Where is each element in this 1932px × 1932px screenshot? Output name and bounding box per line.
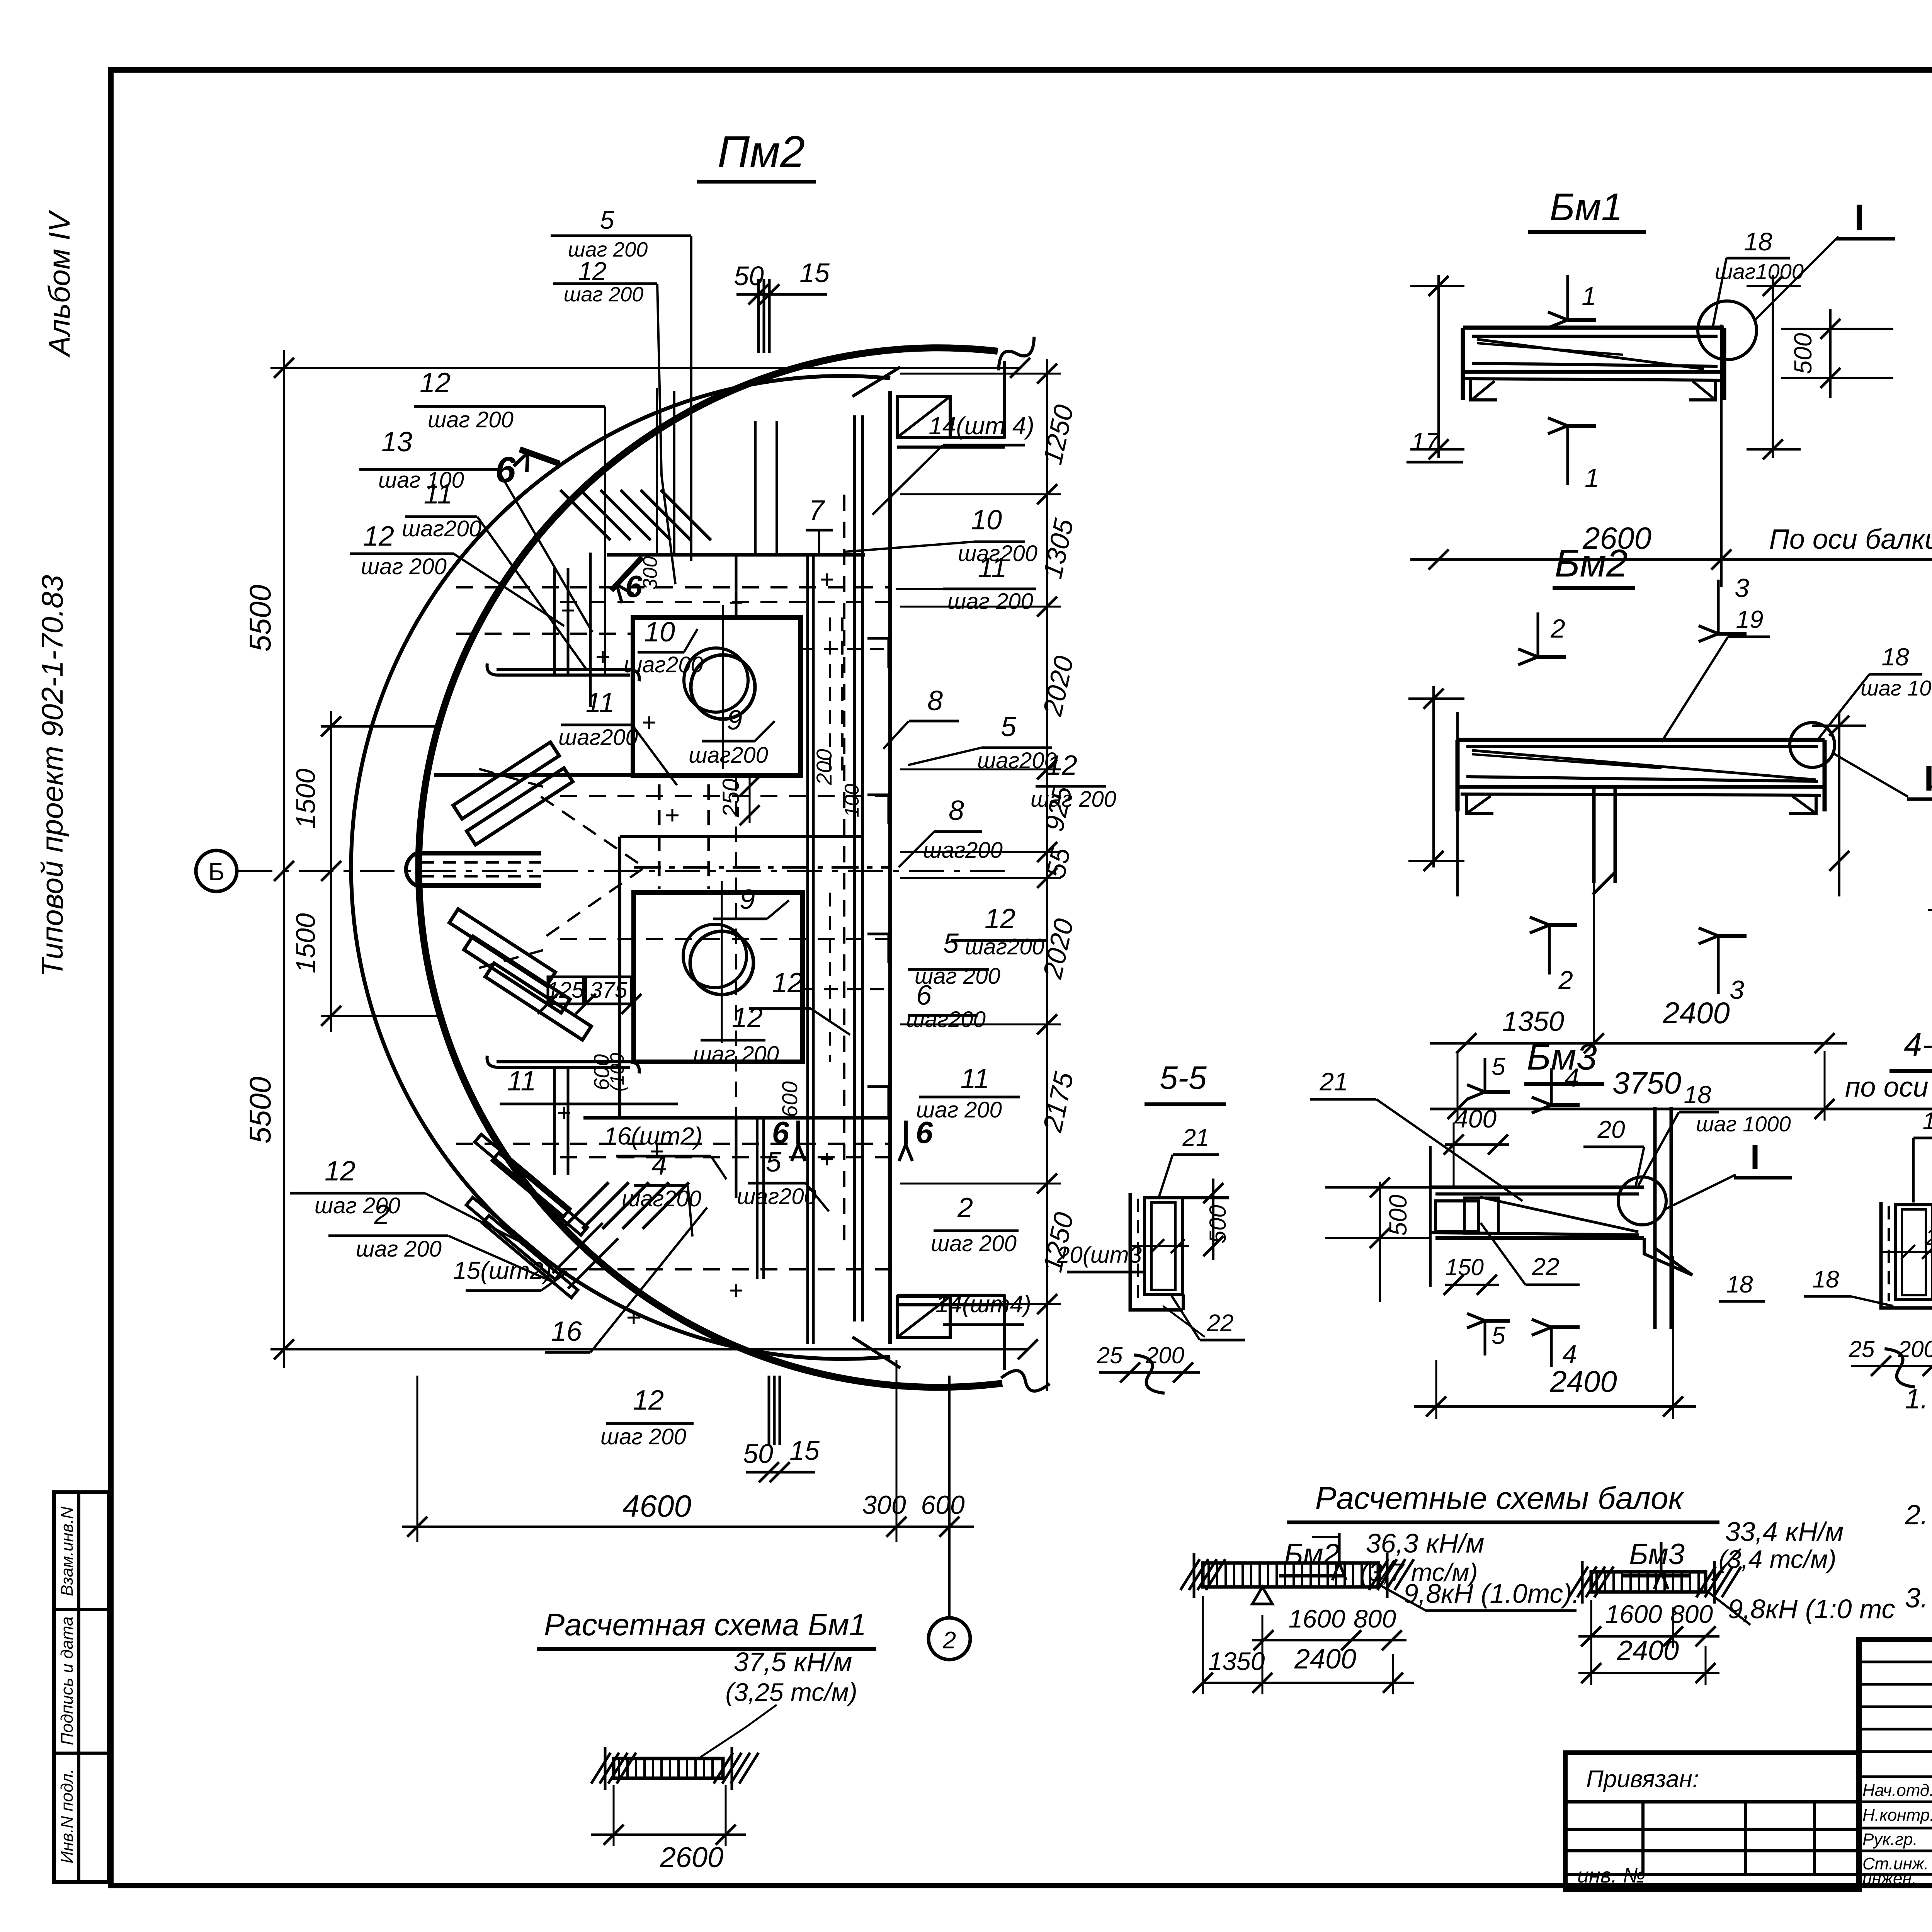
svg-text:4: 4 (651, 1150, 667, 1181)
svg-text:1350: 1350 (1208, 1647, 1265, 1675)
svg-text:1600: 1600 (1605, 1600, 1662, 1628)
left stamp table (54, 1492, 109, 1882)
svg-text:14(шт4): 14(шт4) (935, 1291, 1031, 1318)
svg-text:шаг200: шаг200 (965, 934, 1044, 959)
hatch opening square 2 (634, 893, 803, 1062)
svg-text:10: 10 (971, 505, 1002, 536)
svg-text:12: 12 (985, 903, 1015, 934)
left dim chain 5500/5500 (283, 350, 285, 1368)
svg-text:5500: 5500 (243, 1077, 277, 1144)
dims 125 375 (538, 977, 641, 1014)
svg-text:шаг 1000: шаг 1000 (1696, 1112, 1791, 1136)
dashed distribution lines mid (634, 866, 889, 869)
section mark 6 mid-left with arrow (611, 556, 662, 604)
svg-text:600: 600 (777, 1081, 802, 1117)
angled sleeve bars upper (453, 742, 559, 819)
section mark 6 top-left (495, 449, 560, 490)
svg-text:Б: Б (208, 858, 224, 886)
scheme Бм1 dim 2600 (591, 1785, 746, 1873)
callout label 12 шаг 200 (1031, 750, 1116, 812)
callout label 5 шаг 200 (551, 206, 691, 561)
svg-text:Привязан:: Привязан: (1586, 1766, 1699, 1793)
title block outer (1859, 1639, 1932, 1886)
hole circle 1 (691, 655, 755, 719)
callout label 11 шаг200 (558, 687, 677, 785)
callout label 12 шаг 200 (290, 1156, 534, 1249)
callout label 5 шаг200 (737, 1147, 829, 1211)
scheme Бм2 beam (1180, 1533, 1414, 1604)
hooked bar upper (497, 668, 630, 671)
beam Бм1 dim 500 (1781, 309, 1893, 398)
svg-text:800: 800 (1670, 1600, 1713, 1628)
svg-text:2: 2 (942, 1627, 956, 1654)
svg-text:5: 5 (1492, 1053, 1505, 1080)
svg-text:1: 1 (1585, 463, 1599, 493)
beam Бм3 dim 400 (1444, 1104, 1509, 1188)
beam Бм2 body (1408, 686, 1866, 896)
svg-text:Бм1: Бм1 (1549, 185, 1622, 229)
callout label 50 15 bottom (743, 1435, 820, 1482)
hatched wedge upper left (560, 490, 611, 540)
svg-text:Бм2: Бм2 (1554, 542, 1628, 585)
slab step edge lower (583, 1116, 889, 1120)
svg-text:375: 375 (590, 978, 628, 1003)
svg-text:14(шт 4): 14(шт 4) (929, 412, 1034, 440)
callout label 9 шаг200 (689, 705, 775, 768)
callout label 15(шт2) (453, 1257, 567, 1291)
svg-text:инв. №: инв. № (1577, 1864, 1645, 1887)
svg-text:500: 500 (1384, 1194, 1412, 1236)
svg-text:Подпись и дата: Подпись и дата (58, 1617, 77, 1745)
callout label 16 (545, 1207, 707, 1352)
section 5-5 dims 25 200 (1097, 1342, 1200, 1398)
svg-text:800: 800 (1354, 1604, 1396, 1633)
svg-text:5: 5 (1001, 711, 1017, 742)
callout label 50 15 top (734, 258, 830, 304)
section marks 6 bottom (772, 1115, 933, 1161)
callout label 12 шаг200 (951, 903, 1046, 959)
svg-text:1350: 1350 (1502, 1006, 1564, 1037)
hidden beam edge under plate (843, 495, 845, 1240)
svg-text:I: I (1924, 759, 1932, 798)
callout label 4 шаг200 (622, 1150, 701, 1236)
arc break mark top (992, 337, 1041, 371)
svg-text:300: 300 (639, 556, 662, 590)
callout label 11 шаг 200 (896, 553, 1036, 614)
svg-text:19: 19 (1736, 605, 1763, 633)
svg-text:150: 150 (1445, 1254, 1484, 1280)
svg-text:25: 25 (1849, 1336, 1875, 1362)
svg-text:33,4 кН/м: 33,4 кН/м (1725, 1517, 1844, 1547)
section 4-4 dims 25 200 (1849, 1336, 1932, 1392)
svg-text:9: 9 (727, 705, 742, 736)
svg-text:15: 15 (789, 1435, 820, 1466)
callout label 10 шаг200 (624, 617, 703, 677)
svg-text:12: 12 (633, 1385, 664, 1416)
svg-text:300: 300 (862, 1490, 906, 1520)
plan outer wall arc (419, 348, 1002, 1387)
hooked bar lower (497, 1060, 630, 1063)
beam Бм1 detail circle I (1698, 301, 1757, 360)
svg-text:12: 12 (420, 367, 451, 398)
svg-text:2400: 2400 (1662, 996, 1730, 1030)
svg-text:18: 18 (1726, 1271, 1753, 1298)
svg-text:шаг 200: шаг 200 (315, 1193, 400, 1218)
wedge dashed outline (541, 797, 645, 940)
callout label 5 шаг200 (908, 711, 1057, 773)
svg-text:10: 10 (644, 617, 675, 648)
slab edge diagonal top (852, 367, 900, 396)
svg-text:(100: (100 (606, 1053, 628, 1092)
svg-text:по оси балки: по оси балки (1845, 1072, 1932, 1103)
beam Бм2 section mark 3 bottom (1699, 928, 1747, 1005)
beam end plate 14 bottom (897, 1296, 950, 1337)
bottom dim chain 4600-300-600 (402, 1526, 974, 1528)
slab step edge upper (434, 773, 634, 777)
svg-text:Инв.N подл.: Инв.N подл. (58, 1769, 77, 1864)
svg-text:6: 6 (495, 449, 516, 490)
callout label 11 шаг 200 (916, 1063, 1020, 1122)
pier between openings dashed (658, 784, 661, 889)
rebar verticals lower band (553, 1066, 556, 1175)
svg-text:6: 6 (916, 1115, 933, 1150)
svg-text:200: 200 (812, 749, 836, 785)
svg-text:шаг 200: шаг 200 (428, 407, 514, 432)
interior slab band top edge (607, 553, 865, 557)
slab edge diagonal bottom (852, 1337, 900, 1368)
svg-text:I: I (1750, 1138, 1760, 1177)
svg-text:22: 22 (1531, 1253, 1559, 1281)
svg-text:5: 5 (766, 1147, 782, 1178)
callout label 14(шт 4) (872, 412, 1034, 515)
svg-text:1600: 1600 (1289, 1604, 1345, 1633)
svg-text:2. Арматуру плиты и ст: 2. Арматуру плиты и стержни поз 2 сварит… (1905, 1500, 1932, 1531)
svg-text:2600: 2600 (660, 1841, 724, 1873)
svg-text:Альбом IV: Альбом IV (42, 209, 76, 357)
svg-text:шаг200: шаг200 (689, 743, 768, 768)
svg-text:17: 17 (1411, 427, 1440, 456)
svg-text:50: 50 (734, 261, 764, 291)
svg-text:5: 5 (1492, 1321, 1505, 1349)
bottom wall band near opening (897, 1294, 1005, 1297)
section 4-4 drawing (1881, 1182, 1932, 1308)
svg-text:9,8кН (1:0 тс: 9,8кН (1:0 тс (1728, 1594, 1895, 1624)
svg-text:6: 6 (916, 980, 932, 1011)
svg-text:18: 18 (1881, 643, 1909, 671)
dashed distribution lines upper (456, 586, 889, 588)
beam Бм2 dim 500 (1928, 767, 1932, 935)
svg-text:500: 500 (1205, 1205, 1231, 1243)
beam Бм2 section mark 2 top (1518, 612, 1566, 665)
axis Б circle (196, 850, 237, 891)
svg-text:12: 12 (325, 1156, 355, 1187)
svg-text:16(шт2): 16(шт2) (604, 1122, 702, 1150)
svg-text:Бм3: Бм3 (1629, 1538, 1685, 1571)
svg-text:2400: 2400 (1294, 1644, 1356, 1675)
svg-text:18: 18 (1744, 227, 1772, 256)
beam Бм2 section mark 3 top (1699, 573, 1749, 642)
callout label 12 шаг 200 (414, 367, 605, 674)
svg-text:шаг200: шаг200 (977, 748, 1057, 773)
svg-text:шаг 200: шаг 200 (947, 589, 1033, 614)
scheme Бм1 beam (591, 1705, 777, 1790)
callout label 9 (713, 884, 789, 919)
clip marks along plate edge (867, 638, 889, 668)
top wall band near opening (897, 436, 1005, 439)
svg-text:21: 21 (1182, 1124, 1209, 1151)
svg-text:4-4: 4-4 (1904, 1026, 1932, 1063)
svg-text:20(шт3): 20(шт3) (1925, 1225, 1932, 1250)
beam Бм2 section mark 2 bottom (1530, 917, 1577, 995)
svg-text:13: 13 (381, 427, 412, 457)
svg-text:3: 3 (1730, 975, 1744, 1005)
svg-text:3750: 3750 (1612, 1066, 1681, 1100)
beam Бм2 detail circle I (1790, 723, 1835, 767)
svg-text:37,5 кН/м: 37,5 кН/м (734, 1647, 852, 1677)
svg-text:11: 11 (424, 479, 453, 510)
svg-text:шаг 200: шаг 200 (600, 1424, 686, 1449)
scheme Бм3 beam (1569, 1542, 1741, 1604)
svg-text:Н.контр.: Н.контр. (1862, 1806, 1932, 1825)
beam Бм1 label 18 шаг1000 (1713, 227, 1804, 328)
svg-text:шаг200: шаг200 (737, 1184, 816, 1209)
svg-text:11: 11 (961, 1063, 990, 1094)
notes text (1905, 1384, 1932, 1645)
beam Бм3 section mark 5 bottom (1467, 1313, 1510, 1355)
scheme Бм2 dims (1193, 1596, 1414, 1694)
svg-text:3. Расчетная нагрузка н: 3. Расчетная нагрузка на плиту составляе… (1905, 1583, 1932, 1614)
svg-text:9: 9 (740, 884, 755, 915)
hatched wedge lower left (562, 1182, 609, 1229)
svg-text:12: 12 (578, 257, 606, 285)
privyazan table (1565, 1753, 1860, 1890)
svg-text:5500: 5500 (243, 585, 277, 652)
svg-text:шаг1000: шаг1000 (1715, 259, 1804, 284)
scheme Бм3 dims (1578, 1600, 1719, 1685)
svg-text:(3,4 тс/м): (3,4 тс/м) (1719, 1545, 1837, 1573)
axis Б line (238, 870, 1005, 872)
beam Бм1 section mark 1 top (1548, 275, 1596, 328)
section 5-5 drawing (1130, 1179, 1229, 1310)
dashed horizontals near squares (801, 648, 890, 650)
inner dim chain 1500/1500 (330, 711, 332, 1032)
callout label 5 шаг 200 (908, 928, 1000, 989)
svg-text:15: 15 (799, 258, 830, 288)
svg-text:Пм2: Пм2 (718, 127, 805, 177)
svg-text:8: 8 (927, 685, 943, 716)
svg-text:50: 50 (743, 1439, 773, 1469)
callout label 10 шаг200 (845, 505, 1037, 566)
svg-text:3: 3 (1735, 573, 1749, 603)
callout label 12 (749, 968, 850, 1035)
svg-text:шаг200: шаг200 (558, 725, 638, 750)
callout label 13 шаг 100 (359, 427, 592, 632)
title block grid (1859, 1639, 1932, 1886)
hatch opening square 1 (633, 617, 801, 776)
svg-text:11: 11 (586, 687, 615, 718)
title block names (1862, 1779, 1932, 1888)
svg-text:8: 8 (949, 795, 964, 826)
beam Бм3 section mark 4 bottom (1532, 1319, 1580, 1369)
svg-text:2: 2 (957, 1192, 973, 1223)
svg-text:7: 7 (809, 495, 825, 526)
svg-text:шаг 200: шаг 200 (356, 1236, 442, 1262)
plate straight edge verticals (888, 391, 892, 1344)
callout label 12 шаг 200 (350, 521, 564, 626)
svg-text:Типовой проект 902-1-70.83: Типовой проект 902-1-70.83 (35, 575, 69, 977)
svg-text:Рук.гр.: Рук.гр. (1862, 1830, 1918, 1849)
svg-text:12: 12 (1046, 750, 1077, 781)
beam Бм1 body (1410, 275, 1801, 459)
callout label 16(шт2) (604, 1122, 726, 1179)
small rebar cross marks upper area (562, 610, 574, 612)
svg-text:шаг200: шаг200 (402, 516, 481, 541)
svg-text:2: 2 (1558, 966, 1573, 995)
svg-text:20: 20 (1597, 1116, 1625, 1143)
svg-text:16: 16 (551, 1316, 582, 1347)
callout label 14(шт4) (935, 1291, 1031, 1325)
svg-text:Расчетные схемы балок: Расчетные схемы балок (1315, 1481, 1685, 1516)
beam Бм2 dim 3750 по оси балки (1430, 1051, 1932, 1121)
svg-text:600: 600 (921, 1490, 965, 1520)
dashed distribution lines lower (456, 1143, 889, 1145)
svg-text:18: 18 (1813, 1266, 1839, 1293)
svg-text:По оси балки: По оси балки (1769, 524, 1932, 555)
bar bundle top 50-15 (757, 279, 760, 353)
beam Бм3 label 18 шаг1000 (1638, 1081, 1791, 1185)
callout label 6 шаг200 (906, 980, 986, 1032)
svg-text:Взам.инв.N: Взам.инв.N (58, 1507, 77, 1596)
svg-text:1500: 1500 (291, 913, 321, 973)
beam Бм3 dim 2400 (1414, 1256, 1696, 1419)
svg-text:Нач.отд.: Нач.отд. (1862, 1781, 1932, 1800)
svg-text:шаг 200: шаг 200 (931, 1231, 1017, 1256)
svg-text:1: 1 (1582, 282, 1596, 311)
svg-text:21: 21 (1319, 1067, 1348, 1096)
svg-text:Расчетная схема Бм1: Расчетная схема Бм1 (544, 1607, 866, 1642)
svg-text:5: 5 (600, 206, 614, 234)
beam Бм3 section mark 5 top (1467, 1053, 1510, 1099)
svg-text:1500: 1500 (291, 769, 321, 829)
svg-text:20(шт3: 20(шт3 (1056, 1242, 1142, 1268)
svg-text:400: 400 (1454, 1104, 1497, 1133)
svg-text:5-5: 5-5 (1160, 1060, 1207, 1096)
callout label 2 шаг 200 (931, 1192, 1019, 1256)
svg-text:18: 18 (1923, 1108, 1932, 1134)
svg-text:12: 12 (363, 521, 394, 552)
svg-text:6: 6 (772, 1115, 789, 1150)
svg-text:22: 22 (1207, 1310, 1234, 1337)
svg-text:12: 12 (772, 968, 803, 998)
arc break mark bottom (1001, 1364, 1050, 1398)
beam Бм1 dim 2600 and По оси балки (1410, 325, 1932, 587)
svg-text:9,8кН (1.0тс).: 9,8кН (1.0тс). (1403, 1578, 1580, 1609)
plan inner wall arc (351, 376, 890, 1359)
callout label 12 шаг 200 (693, 1002, 779, 1067)
svg-text:шаг200: шаг200 (624, 652, 703, 677)
axis 2 leader and circle (948, 1376, 951, 1618)
callout label 8 (883, 685, 959, 749)
svg-text:500: 500 (1789, 333, 1817, 374)
beam Бм2 dims 1350 2400 (1430, 883, 1847, 1055)
callout label 11 (500, 1066, 678, 1104)
svg-text:1. Защитный слой бетона: 1. Защитный слой бетона для рабочей арма… (1905, 1384, 1932, 1415)
svg-text:2400: 2400 (1549, 1364, 1617, 1398)
svg-text:36,3 кН/м: 36,3 кН/м (1366, 1528, 1485, 1558)
svg-text:инжен.: инжен. (1862, 1869, 1917, 1888)
callout label 12 шаг 200 (553, 257, 675, 584)
bar bundle bottom 50-15 (768, 1376, 770, 1445)
svg-text:шаг 200: шаг 200 (361, 554, 447, 579)
rebar verticals upper band (553, 568, 556, 674)
beam end plate 14 top (897, 396, 950, 437)
svg-text:шаг 200: шаг 200 (564, 283, 644, 306)
dashed verticals near plate edge (829, 617, 831, 776)
callout label 8 шаг200 (899, 795, 1003, 867)
svg-text:11: 11 (978, 553, 1007, 583)
svg-text:18: 18 (1684, 1081, 1711, 1109)
svg-text:2400: 2400 (1617, 1635, 1679, 1666)
beam Бм2 label 18 шаг1000 (1818, 643, 1932, 739)
callout label 2 шаг 200 (328, 1199, 553, 1282)
slab step edge mid (620, 835, 864, 838)
svg-text:11: 11 (507, 1066, 536, 1097)
angled sleeve bars lower (449, 909, 555, 986)
svg-text:2: 2 (1550, 614, 1565, 643)
svg-text:шаг200: шаг200 (923, 838, 1003, 863)
svg-text:12: 12 (732, 1002, 763, 1033)
callout label 12 шаг 200 (600, 1385, 694, 1449)
beam Бм1 section mark 1 bottom (1548, 418, 1599, 493)
svg-text:250: 250 (718, 779, 744, 818)
svg-text:5: 5 (943, 928, 959, 959)
callout label 7 (806, 495, 833, 555)
pier left edge (618, 837, 621, 1118)
beam Бм3 section mark 4 top (1532, 1063, 1580, 1113)
svg-text:(3,25 тс/м): (3,25 тс/м) (725, 1678, 857, 1706)
svg-text:шаг200: шаг200 (906, 1007, 986, 1032)
svg-text:4600: 4600 (622, 1489, 691, 1523)
right dim chain (1046, 359, 1048, 1391)
svg-text:100: 100 (841, 784, 863, 818)
beam Бм3 circle I (1618, 1177, 1666, 1225)
svg-text:шаг 200: шаг 200 (1031, 787, 1116, 812)
pipe axis entering left (417, 851, 541, 855)
svg-text:шаг 1000: шаг 1000 (1861, 676, 1932, 700)
svg-text:4: 4 (1565, 1063, 1579, 1092)
svg-text:шаг 200: шаг 200 (693, 1042, 779, 1067)
beam Бм3 body (1325, 1107, 1736, 1329)
diagonal anchor bars 15-16 bottom left (475, 1134, 570, 1217)
beam Бм3 label 150 22 (1444, 1223, 1580, 1295)
svg-text:I: I (1854, 197, 1864, 238)
callout label 11 шаг200 (402, 479, 587, 670)
svg-text:25: 25 (1097, 1342, 1123, 1368)
hole circle 2 (690, 931, 753, 995)
svg-text:Бм3: Бм3 (1527, 1036, 1597, 1078)
